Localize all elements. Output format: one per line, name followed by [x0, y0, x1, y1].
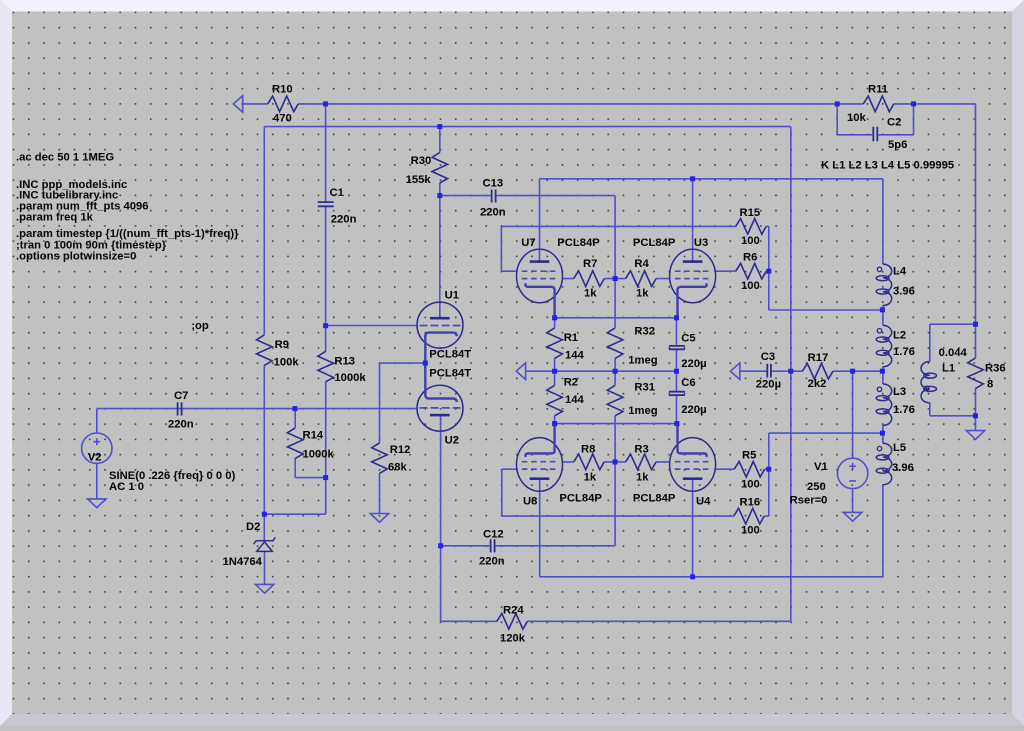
- svg-text:100: 100: [741, 479, 760, 491]
- svg-text:.param num_fft_pts 4096: .param num_fft_pts 4096: [16, 200, 149, 212]
- svg-text:D2: D2: [246, 521, 260, 533]
- svg-text:68k: 68k: [388, 462, 408, 474]
- svg-text:1000k: 1000k: [334, 372, 366, 384]
- svg-text:1N4764: 1N4764: [223, 556, 263, 568]
- svg-text:C12: C12: [483, 529, 504, 541]
- svg-text:C1: C1: [330, 187, 344, 199]
- svg-text:R10: R10: [272, 84, 293, 96]
- svg-text:3.96: 3.96: [893, 286, 915, 298]
- svg-text:R6: R6: [743, 252, 757, 264]
- svg-text:.ac dec 50 1 1MEG: .ac dec 50 1 1MEG: [16, 152, 114, 164]
- svg-text:220n: 220n: [331, 213, 357, 225]
- svg-text:1.76: 1.76: [893, 346, 915, 358]
- svg-text:U1: U1: [445, 290, 459, 302]
- svg-text:3.96: 3.96: [892, 462, 914, 474]
- svg-text:R5: R5: [742, 450, 756, 462]
- svg-text:PCL84P: PCL84P: [633, 493, 676, 505]
- svg-text:Rser=0: Rser=0: [790, 494, 828, 506]
- svg-text:V2: V2: [88, 451, 102, 463]
- svg-text:155k: 155k: [406, 174, 432, 186]
- svg-text:U4: U4: [696, 496, 711, 508]
- svg-text:R3: R3: [634, 444, 648, 456]
- svg-text:R32: R32: [634, 326, 655, 338]
- svg-text:C3: C3: [761, 351, 775, 363]
- svg-text:2k2: 2k2: [808, 378, 827, 390]
- svg-text:SINE(0 .226 {freq} 0 0 0): SINE(0 .226 {freq} 0 0 0): [109, 470, 236, 482]
- svg-text:1k: 1k: [584, 472, 597, 484]
- svg-text:R7: R7: [583, 258, 597, 270]
- svg-text:AC 1 0: AC 1 0: [109, 481, 144, 493]
- svg-text:C2: C2: [887, 117, 901, 129]
- svg-text:;tran 0 100m 90m {timestep}: ;tran 0 100m 90m {timestep}: [16, 239, 167, 251]
- svg-text:1.76: 1.76: [893, 404, 915, 416]
- svg-text:PCL84T: PCL84T: [429, 349, 471, 361]
- svg-text:220µ: 220µ: [681, 358, 706, 370]
- svg-text:U8: U8: [523, 496, 537, 508]
- svg-text:R36: R36: [985, 363, 1006, 375]
- svg-text:PCL84T: PCL84T: [429, 368, 471, 380]
- svg-text:;op: ;op: [191, 320, 209, 332]
- svg-text:1k: 1k: [636, 288, 649, 300]
- svg-text:U7: U7: [521, 237, 535, 249]
- svg-text:1k: 1k: [584, 288, 597, 300]
- svg-text:10k: 10k: [847, 112, 867, 124]
- svg-text:R1: R1: [564, 332, 578, 344]
- svg-text:R16: R16: [740, 497, 761, 509]
- svg-text:.param timestep {1/((num_fft_p: .param timestep {1/((num_fft_pts-1)*freq…: [16, 228, 239, 240]
- svg-text:R24: R24: [503, 605, 524, 617]
- svg-text:1meg: 1meg: [628, 405, 658, 417]
- svg-text:120k: 120k: [500, 633, 526, 645]
- svg-text:220µ: 220µ: [681, 404, 706, 416]
- svg-text:8: 8: [987, 379, 993, 391]
- svg-text:100: 100: [741, 525, 760, 537]
- svg-text:1k: 1k: [636, 472, 649, 484]
- svg-text:C5: C5: [681, 332, 695, 344]
- svg-text:220n: 220n: [479, 556, 505, 568]
- svg-text:.options plotwinsize=0: .options plotwinsize=0: [16, 251, 136, 263]
- svg-text:R30: R30: [411, 155, 432, 167]
- svg-text:100: 100: [741, 235, 760, 247]
- svg-text:R31: R31: [634, 382, 655, 394]
- svg-text:220n: 220n: [480, 207, 506, 219]
- svg-text:1meg: 1meg: [628, 354, 658, 366]
- svg-text:144: 144: [565, 349, 585, 361]
- svg-text:C6: C6: [681, 377, 695, 389]
- svg-text:0.044: 0.044: [939, 347, 968, 359]
- svg-text:PCL84P: PCL84P: [633, 237, 676, 249]
- svg-text:R8: R8: [581, 444, 595, 456]
- svg-text:100k: 100k: [274, 357, 300, 369]
- svg-text:L4: L4: [893, 266, 907, 278]
- svg-text:R2: R2: [564, 377, 578, 389]
- svg-text:PCL84P: PCL84P: [557, 237, 600, 249]
- svg-text:5p6: 5p6: [888, 139, 907, 151]
- svg-text:.param freq 1k: .param freq 1k: [16, 212, 94, 224]
- svg-text:K L1 L2 L3 L4 L5 0.99995: K L1 L2 L3 L4 L5 0.99995: [821, 160, 954, 172]
- svg-text:R11: R11: [868, 84, 888, 96]
- svg-text:1000k: 1000k: [303, 449, 335, 461]
- svg-text:220µ: 220µ: [756, 379, 781, 391]
- svg-text:R15: R15: [740, 207, 761, 219]
- svg-text:R12: R12: [390, 444, 411, 456]
- svg-text:R9: R9: [275, 339, 289, 351]
- svg-text:C7: C7: [174, 390, 188, 402]
- svg-text:470: 470: [273, 113, 292, 125]
- svg-text:C13: C13: [483, 178, 504, 190]
- svg-text:L2: L2: [893, 330, 906, 342]
- svg-text:100: 100: [741, 280, 760, 292]
- svg-text:U2: U2: [445, 435, 459, 447]
- svg-text:R14: R14: [303, 430, 324, 442]
- svg-text:R17: R17: [808, 352, 829, 364]
- svg-text:L1: L1: [942, 363, 955, 375]
- svg-text:PCL84P: PCL84P: [559, 493, 602, 505]
- svg-text:V1: V1: [814, 461, 828, 473]
- svg-text:L5: L5: [893, 442, 906, 454]
- svg-text:R13: R13: [334, 356, 355, 368]
- svg-text:L3: L3: [893, 386, 906, 398]
- svg-text:250: 250: [807, 481, 826, 493]
- svg-text:U3: U3: [694, 237, 708, 249]
- svg-text:R4: R4: [634, 258, 649, 270]
- svg-text:220n: 220n: [168, 419, 194, 431]
- svg-text:144: 144: [565, 394, 585, 406]
